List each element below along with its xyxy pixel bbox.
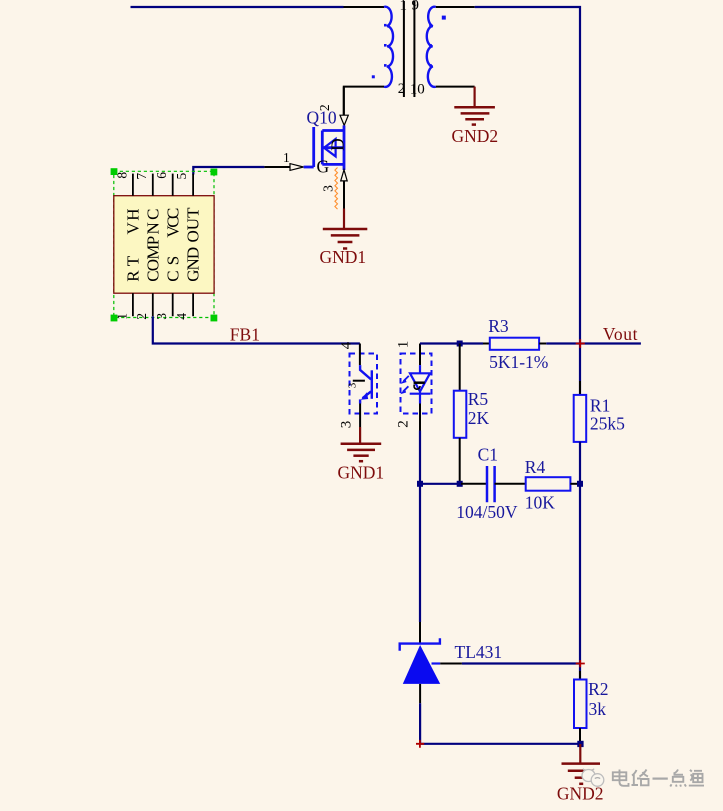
svg-text:4: 4 [339,341,355,349]
resistor R2 top pin [579,671,581,680]
junction dot bottom [577,741,583,747]
IC pin 1 [132,293,134,316]
ERC cross at anode corner [416,740,424,748]
resistor R3 body [490,338,539,350]
svg-text:5: 5 [174,172,189,179]
wire Vout net [420,342,483,344]
IC U1 body [114,196,214,294]
svg-text:C1: C1 [478,445,498,465]
svg-text:R1: R1 [590,396,610,416]
resistor R1 body [574,395,587,442]
transformer primary winding [384,7,393,87]
ground GND1 stub (mosfet) [343,209,345,230]
IC pin 3 [172,293,174,316]
ground GND2 top stub [474,87,476,107]
svg-text:OUT: OUT [184,207,203,243]
svg-text:GND1: GND1 [320,247,367,267]
TL431 ref lead [432,662,441,664]
ground GND2 bottom symbol [562,764,601,784]
svg-text:GND2: GND2 [452,126,499,146]
transformer pin 10 lead [436,86,475,88]
resistor R4 right pin [570,483,580,485]
pin arrow source (up) [341,170,348,181]
IC selection handle bottom-left [111,315,118,322]
wire source to ground [343,181,345,209]
svg-text:GND: GND [184,247,203,282]
junction dot left bottom [417,481,423,487]
watermark logo [582,769,604,787]
svg-text:10K: 10K [525,493,556,513]
svg-text:TL431: TL431 [455,642,503,662]
junction dot R5 bottom [457,481,463,487]
pin arrow drain (down) [340,115,348,125]
wire LED to TL431 [419,431,421,623]
opto phototransistor symbol [360,365,372,403]
capacitor C1 plates [487,466,495,502]
opto pin 3 [359,404,361,428]
wire bottom return [420,743,580,745]
LED inner pin mark [414,381,425,384]
svg-text:2: 2 [396,420,412,428]
svg-text:D: D [328,138,348,151]
svg-text:Vout: Vout [603,324,638,344]
svg-text:2: 2 [317,104,332,111]
svg-text:3: 3 [347,382,359,388]
IC pin 6 [172,174,174,196]
IC pin 2 [152,293,154,316]
ground GND2 bottom stub [579,744,581,764]
svg-text:G: G [317,157,330,177]
svg-text:8: 8 [114,172,129,179]
IC pin 8 [132,174,134,196]
svg-text:1: 1 [114,313,129,320]
wire R3 to rail and Vout stub [546,342,641,344]
svg-text:R5: R5 [468,389,489,409]
transformer pin 9 lead [436,6,475,8]
IC selection handle top-left [111,168,118,175]
svg-text:VCC: VCC [164,208,183,238]
svg-text:2K: 2K [468,408,490,428]
svg-text:25k5: 25k5 [590,414,625,434]
resistor R5 bottom pin [459,438,461,484]
TL431 cathode pin [419,622,421,644]
svg-text:GND1: GND1 [338,463,385,483]
resistor R1 bottom pin [579,442,581,460]
wire top primary [131,6,344,8]
transformer core [404,1,415,97]
resistor R5 body [454,391,467,438]
junction dot FB node [457,341,463,347]
svg-text:3: 3 [321,185,336,192]
optocoupler phototransistor dashed box [350,354,378,414]
wire secondary to rail [475,7,580,395]
optocoupler LED dashed box [401,354,432,414]
IC selection handle top-right [211,169,218,176]
svg-text:FB1: FB1 [230,324,260,344]
svg-text:R3: R3 [488,316,509,336]
svg-text:104/50V: 104/50V [456,502,518,522]
svg-text:2: 2 [398,81,406,97]
svg-text:3: 3 [154,313,169,320]
resistor R3 left pin [483,343,490,345]
pin arrow gate (right) [290,164,303,171]
TL431 U2 symbol [400,638,440,651]
mosfet Q10 body [304,125,344,170]
svg-text:3: 3 [339,421,355,429]
wire FB1 [153,316,360,343]
resistor R1 top pin [579,381,581,395]
transformer pin 2 lead [344,87,384,116]
IC pin 5 [192,174,194,196]
LED light arrows [400,376,409,394]
LED pin 2 [419,404,421,431]
wire drain black [343,87,345,116]
opto pin 4 [359,344,361,366]
ground GND2 top symbol [454,107,495,124]
transformer pin 1 lead [344,6,385,8]
svg-text:COMP: COMP [144,236,163,282]
ground GND1 symbol (mosfet) [323,229,368,249]
svg-text:1: 1 [400,0,408,14]
IC selection handle bottom-right [211,315,218,322]
junction dot rail mid [577,481,583,487]
wire ref to rail [462,662,580,664]
ERC marker zigzag [335,168,338,210]
resistor R4 body [526,477,571,491]
LED symbol [410,365,431,403]
opto inner pin mark [353,380,365,382]
resistor R2 body [574,680,587,729]
opto emitter arrowhead [361,392,368,400]
IC pin 4 [192,293,194,316]
svg-text:6: 6 [154,172,169,179]
LED pin 1 [419,344,421,366]
svg-text:2: 2 [134,313,149,320]
IC selection rectangle [114,171,214,317]
wire gate from IC [193,167,264,175]
svg-text:1: 1 [396,341,412,349]
svg-text:9: 9 [412,0,420,14]
svg-text:4: 4 [174,313,189,320]
ground GND1 stub (opto) [359,427,361,444]
svg-text:R2: R2 [588,679,608,699]
rail middle segment [579,442,581,680]
capacitor C1 right pin [495,483,526,485]
IC pin 7 [152,174,154,196]
pin gate lead black [264,166,290,168]
transformer secondary polarity dot [442,16,446,20]
svg-text:3k: 3k [589,699,607,719]
svg-text:7: 7 [134,173,149,180]
transformer primary polarity dot [372,75,375,78]
svg-text:10: 10 [410,81,425,97]
capacitor C1 left pin [461,483,487,485]
resistor R3 right pin [539,343,546,345]
ground GND1 symbol (opto) [341,444,382,462]
TL431 anode pin [419,684,421,703]
watermark text dian lu yi dian tong [613,770,704,787]
ERC cross at ref junction [576,660,585,667]
resistor R5 top pin [459,344,461,391]
ERC cross at Vout junction [576,339,585,348]
transformer secondary winding [427,7,436,87]
svg-text:1: 1 [283,150,290,165]
svg-text:5K1-1%: 5K1-1% [489,352,548,372]
svg-text:R4: R4 [525,457,546,477]
wire anode down [419,703,421,744]
wire C1 R4 bottom [420,483,461,485]
svg-text:VH: VH [124,209,143,235]
resistor R2 bottom pin [579,728,581,741]
